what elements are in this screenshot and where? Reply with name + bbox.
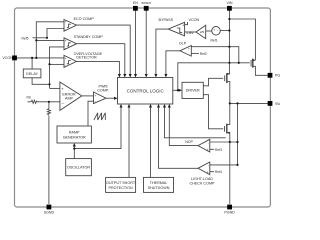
svg-text:ECO COMP: ECO COMP	[74, 17, 95, 21]
svg-text:-: -	[189, 52, 190, 56]
svg-text:AMP: AMP	[65, 96, 74, 100]
svg-text:THERMAL: THERMAL	[150, 181, 168, 185]
svg-text:-: -	[65, 27, 66, 31]
svg-text:-: -	[65, 46, 66, 50]
svg-text:VCON: VCON	[2, 56, 13, 60]
svg-text:Ref2: Ref2	[200, 52, 207, 56]
svg-text:-: -	[217, 29, 218, 33]
svg-text:+: +	[207, 148, 209, 152]
svg-text:STANDBY COMP: STANDBY COMP	[74, 35, 104, 39]
svg-text:GENERATOR: GENERATOR	[63, 135, 86, 139]
svg-text:Ref3: Ref3	[215, 148, 222, 152]
svg-text:DETECTOR: DETECTOR	[76, 56, 97, 60]
svg-text:DELAY: DELAY	[26, 72, 38, 76]
svg-text:1.8V: 1.8V	[186, 31, 194, 35]
svg-text:VIN: VIN	[227, 1, 233, 5]
svg-text:VCON: VCON	[189, 18, 200, 22]
svg-text:SW: SW	[275, 102, 280, 106]
svg-text:PROTECTION: PROTECTION	[109, 186, 134, 190]
svg-text:OLP: OLP	[179, 42, 187, 46]
svg-text:Ref1: Ref1	[211, 38, 218, 42]
svg-text:RAMP: RAMP	[69, 130, 80, 134]
svg-text:+: +	[182, 23, 184, 27]
svg-text:+: +	[65, 56, 67, 60]
svg-text:PGND: PGND	[224, 211, 235, 215]
svg-text:BYPASS: BYPASS	[159, 18, 174, 22]
svg-text:OSCILLATOR: OSCILLATOR	[67, 166, 90, 170]
svg-text:CHECK COMP: CHECK COMP	[190, 182, 216, 186]
svg-text:+: +	[95, 94, 97, 98]
svg-text:-: -	[65, 64, 66, 68]
svg-text:+: +	[188, 47, 190, 51]
svg-text:DRIVER: DRIVER	[186, 89, 200, 93]
svg-text:LIGHT-LOAD: LIGHT-LOAD	[191, 177, 213, 181]
svg-text:SGND: SGND	[44, 211, 55, 215]
svg-text:COMP.: COMP.	[97, 89, 109, 93]
svg-text:+: +	[61, 87, 64, 92]
svg-text:-: -	[208, 164, 209, 168]
svg-text:Ref5: Ref5	[22, 36, 29, 40]
svg-text:CONTROL LOGIC: CONTROL LOGIC	[127, 89, 165, 94]
svg-text:2/5: 2/5	[200, 30, 205, 34]
svg-text:-: -	[183, 31, 184, 35]
svg-text:−: −	[61, 101, 64, 106]
svg-text:EN: EN	[133, 1, 138, 5]
svg-text:PG: PG	[275, 74, 280, 78]
svg-text:−: −	[95, 100, 97, 104]
svg-text:-: -	[208, 141, 209, 145]
svg-text:NCP: NCP	[185, 140, 193, 144]
svg-text:+: +	[207, 171, 209, 175]
svg-text:+: +	[65, 39, 67, 43]
svg-text:SHUTDOWN: SHUTDOWN	[148, 186, 170, 190]
svg-text:+: +	[65, 20, 67, 24]
svg-text:OUTPUT SHORT: OUTPUT SHORT	[106, 181, 136, 185]
svg-text:BP/EN: BP/EN	[142, 1, 151, 5]
svg-text:Ref4: Ref4	[215, 170, 222, 174]
svg-text:+: +	[213, 28, 215, 32]
